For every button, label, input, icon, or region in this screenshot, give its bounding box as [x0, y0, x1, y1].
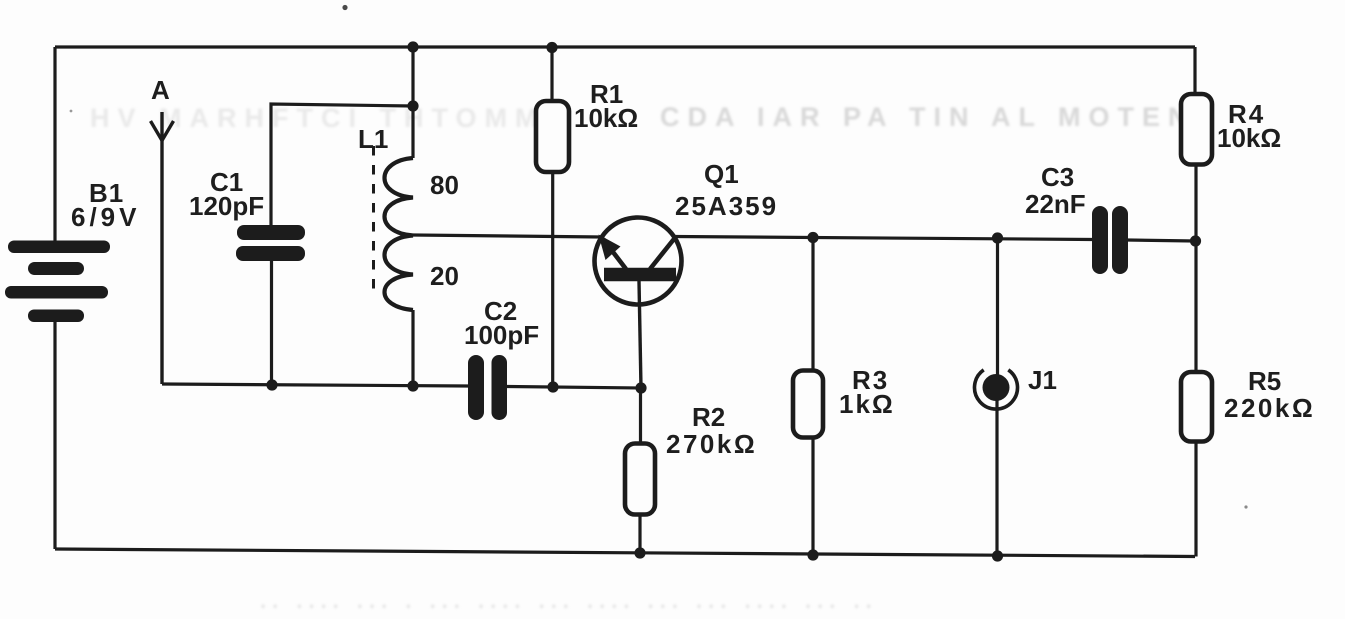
inductor L1 core dashed line — [372, 146, 375, 298]
svg-text:100pF: 100pF — [464, 320, 539, 350]
svg-text:120pF: 120pF — [189, 191, 264, 221]
svg-text:220kΩ: 220kΩ — [1224, 393, 1315, 423]
wire bottom rail — [55, 549, 1195, 557]
svg-text:A: A — [151, 75, 170, 105]
svg-text:10kΩ: 10kΩ — [574, 103, 638, 133]
jack J1 outer ring — [975, 370, 1018, 409]
svg-text:CDA IAR PA TIN AL MOTENT: CDA IAR PA TIN AL MOTENT — [660, 102, 1220, 132]
wire C1 top lead and link to L1 — [271, 104, 413, 226]
wire R5 bottom lead — [1194, 441, 1197, 557]
battery B1 plate 3 long — [5, 286, 108, 299]
scan ghost text band top — [90, 102, 1220, 133]
jack J1 inner contact — [983, 374, 1010, 401]
battery B1 plate 4 short — [28, 310, 84, 323]
antenna arrow barb left — [151, 121, 163, 141]
svg-text:80: 80 — [430, 170, 459, 200]
scan ghost band bottom — [260, 588, 878, 613]
svg-text:10kΩ: 10kΩ — [1217, 123, 1281, 153]
scan speck top — [342, 5, 347, 10]
node lower rail x L1 — [407, 380, 418, 391]
svg-text:.. .... ... . ... .... ...: .. .... ... . ... .... ... .... ... ... … — [260, 588, 878, 613]
transistor Q1 emitter diagonal — [603, 239, 626, 269]
capacitor C1 plate bottom — [236, 246, 305, 261]
battery B1 plate 1 long — [8, 241, 110, 254]
wire lower rail left segment — [162, 384, 468, 386]
node collector x J1 — [992, 232, 1003, 243]
wire C3 to right rail — [1127, 240, 1195, 241]
wire battery top lead — [53, 47, 56, 241]
resistor R4 body — [1181, 94, 1212, 165]
wire R3 top lead — [811, 237, 814, 371]
node top rail x R1 — [546, 42, 557, 53]
wire R5 top lead — [1194, 241, 1197, 373]
node lower rail x R1 — [547, 381, 558, 392]
wire lower rail right segment — [506, 387, 641, 389]
wire J1 bottom lead — [995, 400, 998, 556]
resistor R2 body — [625, 444, 655, 515]
node collector x R3 — [807, 232, 818, 243]
node lower rail x base/R2 — [635, 382, 646, 393]
svg-text:J1: J1 — [1028, 365, 1057, 395]
antenna arrow barb right — [162, 121, 174, 141]
wire battery bottom lead — [53, 321, 56, 549]
svg-text:R5: R5 — [1248, 366, 1281, 396]
wire R2 bottom lead — [638, 514, 641, 553]
svg-text:C3: C3 — [1041, 162, 1074, 192]
node top rail x L1 — [407, 41, 418, 52]
capacitor C1 plate top — [237, 225, 305, 240]
wire Q1 base lead — [639, 281, 641, 388]
resistor R3 body — [793, 371, 823, 438]
transistor Q1 emitter arrowhead — [599, 235, 621, 261]
resistor R1 body — [536, 101, 569, 172]
svg-text:R2: R2 — [692, 402, 725, 432]
wire J1 top lead — [996, 238, 999, 375]
wire L1 tap to Q1 emitter — [413, 235, 602, 237]
resistor R5 body — [1181, 372, 1212, 442]
wire L1 bottom lead — [411, 310, 414, 386]
node bottom rail x R2 — [634, 547, 645, 558]
svg-text:270kΩ: 270kΩ — [666, 429, 757, 459]
antenna A lead — [160, 112, 163, 384]
battery B1 plate 2 short — [28, 262, 84, 275]
svg-text:L1: L1 — [358, 124, 388, 154]
svg-text:25A359: 25A359 — [675, 191, 778, 221]
wire R3 bottom lead — [811, 437, 814, 555]
svg-text:1kΩ: 1kΩ — [839, 389, 895, 419]
capacitor C3 plate right — [1112, 206, 1128, 274]
capacitor C3 plate left — [1092, 206, 1108, 274]
wire R1 bottom lead — [551, 172, 554, 387]
wire C1 bottom lead — [270, 260, 273, 385]
svg-text:Q1: Q1 — [704, 159, 739, 189]
svg-text:22nF: 22nF — [1025, 189, 1086, 219]
node bottom rail x R3 — [807, 549, 818, 560]
wire right rail top (R4 top lead) — [1193, 47, 1196, 95]
node lower rail x C1 — [266, 379, 277, 390]
wire R2 top lead — [639, 388, 642, 444]
svg-text:HV MARHFTCI THTOMM: HV MARHFTCI THTOMM — [90, 103, 545, 133]
wire Q1 collector to C3 — [674, 237, 1093, 240]
wire R4 bottom lead — [1194, 164, 1197, 241]
node C1 wire x L1 line — [407, 100, 418, 111]
wire top rail — [55, 45, 1195, 48]
node C3 x right rail — [1190, 235, 1201, 246]
transistor Q1 circle — [595, 218, 682, 305]
node bottom rail x J1 — [992, 550, 1003, 561]
wire L1 top lead — [411, 47, 414, 158]
transistor Q1 base bar — [604, 268, 676, 282]
capacitor C2 plate left — [468, 355, 484, 420]
inductor L1 coil (4 loops, tap after 2) — [385, 158, 414, 310]
svg-text:20: 20 — [430, 261, 459, 291]
wire R1 top lead — [550, 47, 553, 102]
capacitor C2 plate right — [492, 355, 508, 420]
transistor Q1 collector diagonal — [650, 239, 674, 269]
svg-text:6/9V: 6/9V — [71, 202, 141, 232]
